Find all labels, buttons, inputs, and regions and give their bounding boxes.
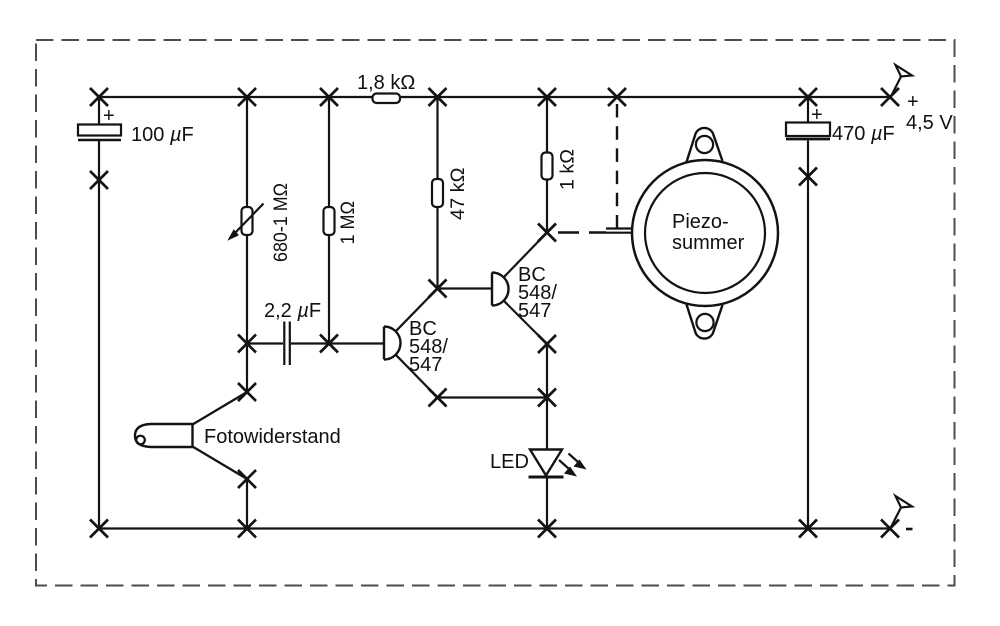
wire Q1 collector <box>396 289 438 332</box>
wire 47k branch lower <box>436 207 438 289</box>
battery minus terminal <box>881 496 913 538</box>
node junction top rail at pot branch <box>238 88 256 106</box>
wire right rail upper <box>807 97 809 123</box>
wire dashed piezo signal <box>558 231 606 233</box>
svg-text:100 µF: 100 µF <box>131 124 194 146</box>
svg-text:+: + <box>103 105 115 127</box>
svg-text:470 µF: 470 µF <box>832 123 895 145</box>
wire to LED <box>546 398 548 450</box>
wire T2 base <box>438 287 493 289</box>
wire 1M branch lower <box>328 235 330 344</box>
node junction Q2 emitter <box>538 335 556 353</box>
node junction emitter rail left <box>429 389 447 407</box>
wire left rail upper <box>98 97 100 125</box>
node junction left rail below C1 <box>90 171 108 189</box>
svg-text:+: + <box>811 104 823 126</box>
wire 1M branch upper <box>328 97 330 207</box>
wire Q1 emitter <box>396 355 438 398</box>
node junction top rail at C1 <box>90 88 108 106</box>
node junction ground at LED <box>538 520 556 538</box>
wire Q2 collector <box>504 233 547 278</box>
svg-text:1 MΩ: 1 MΩ <box>338 201 359 245</box>
wire emitter down <box>546 344 548 398</box>
svg-text:680-1 MΩ: 680-1 MΩ <box>271 183 292 262</box>
wire bottom ground rail <box>99 527 891 529</box>
node junction top rail at piezo dashed <box>608 88 626 106</box>
wire Q2 emitter <box>504 301 547 344</box>
svg-text:4,5 V: 4,5 V <box>906 112 953 134</box>
wire emitter cross link <box>438 396 548 398</box>
wire LDR branch to ground <box>246 479 248 529</box>
svg-text:1,8 kΩ: 1,8 kΩ <box>357 72 415 94</box>
transistor Q2 BC548/547 <box>492 264 557 322</box>
resistor R2 1 MΩ <box>324 201 360 245</box>
capacitor C2 2,2 µF <box>264 300 321 365</box>
wire 1k branch lower <box>546 180 548 233</box>
node junction pot/LDR top <box>238 383 256 401</box>
node junction pot/C2 <box>238 335 256 353</box>
capacitor C3 470 µF <box>786 104 895 145</box>
svg-text:summer: summer <box>672 232 745 254</box>
wire dashed piezo supply <box>616 104 618 232</box>
resistor R1 680-1 MΩ variable <box>227 183 292 262</box>
node junction ground at LDR branch <box>238 520 256 538</box>
node junction T1 collector / T2 base <box>429 280 447 298</box>
photoresistor LDR Fotowiderstand <box>135 424 341 448</box>
svg-text:Fotowiderstand: Fotowiderstand <box>204 426 341 448</box>
wire LED to ground rail <box>546 478 548 529</box>
node junction top rail at 47k branch <box>429 88 447 106</box>
battery plus terminal <box>881 65 953 134</box>
node junction emitter rail right <box>538 389 556 407</box>
node junction LDR bottom <box>238 470 256 488</box>
wire C2 left <box>247 342 283 344</box>
wire pot branch upper <box>246 97 248 207</box>
wire pot branch lower <box>246 235 248 392</box>
node junction top rail at C3 <box>799 88 817 106</box>
node junction ground at right rail <box>799 520 817 538</box>
resistor R4 47 kΩ <box>432 168 469 221</box>
node junction top rail at 1k branch <box>538 88 556 106</box>
svg-text:2,2 µF: 2,2 µF <box>264 300 321 322</box>
piezo terminal leads <box>606 229 633 233</box>
wire right rail lower <box>807 141 809 529</box>
resistor R3 1,8 kΩ <box>357 72 415 103</box>
svg-text:47 kΩ: 47 kΩ <box>448 168 469 221</box>
wire 1k branch upper <box>546 97 548 153</box>
wire 47k branch upper <box>436 97 438 179</box>
wire left rail lower <box>98 140 100 529</box>
node junction top rail at 1M branch <box>320 88 338 106</box>
wire LDR top lead <box>193 392 248 425</box>
svg-text:Piezo-: Piezo- <box>672 211 729 233</box>
LED D1 <box>490 450 587 478</box>
svg-text:1 kΩ: 1 kΩ <box>558 149 579 190</box>
capacitor C1 100 µF <box>78 105 194 146</box>
svg-text:LED: LED <box>490 451 529 473</box>
piezo buzzer BZ1 <box>632 128 778 339</box>
transistor Q1 BC548/547 <box>384 318 448 376</box>
node junction right rail below C3 <box>799 168 817 186</box>
wire LDR bottom lead <box>193 447 248 480</box>
node junction ground left corner <box>90 520 108 538</box>
wire C2 right to T1 base <box>291 342 384 344</box>
svg-text:+: + <box>907 91 919 113</box>
node junction 1M/base wire <box>320 335 338 353</box>
wire top supply rail <box>99 96 890 98</box>
node junction T2 collector / piezo <box>538 224 556 242</box>
resistor R5 1 kΩ <box>542 149 579 190</box>
